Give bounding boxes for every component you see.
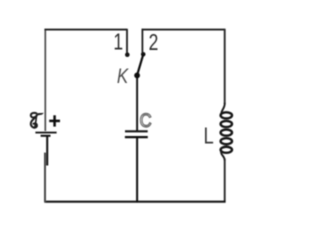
wire: right vertical lower, inductor bottom to bottom-right corner xyxy=(224,159,226,202)
wire: middle vertical from capacitor to bottom wire xyxy=(136,138,138,202)
battery negative lead (thick dark segment) xyxy=(46,136,48,165)
switch lever K from pivot to contact 2 xyxy=(137,54,143,76)
capacitor C bottom plate xyxy=(125,136,148,138)
wire: top horizontal left segment to contact-1 corner xyxy=(44,29,127,31)
node: switch contact 1 dot xyxy=(125,52,130,57)
inductor L coil turn 2 xyxy=(221,121,232,127)
svg-text:C: C xyxy=(140,110,152,132)
node: switch pivot dot K xyxy=(134,73,140,79)
svg-text:1: 1 xyxy=(113,30,123,55)
label: EMF script E xyxy=(31,113,44,128)
svg-text:L: L xyxy=(204,123,214,148)
inductor L coil turn 1 xyxy=(221,112,232,118)
wire: left vertical from top-left corner down to battery + plate xyxy=(44,30,46,131)
wire: stub down to switch contact 1 xyxy=(126,29,128,53)
wire: bottom horizontal xyxy=(44,201,225,203)
inductor L coil turn 4 xyxy=(221,138,232,144)
wire: stub down to switch contact 2 xyxy=(141,29,143,53)
wire: middle vertical from pivot down to capacitor top plate xyxy=(136,75,138,131)
battery long positive plate xyxy=(35,132,56,134)
node: switch contact 2 dot xyxy=(141,52,146,57)
inductor L coil turn 3 xyxy=(221,130,232,136)
svg-text:2: 2 xyxy=(149,31,159,56)
battery short negative plate xyxy=(41,135,51,137)
label: + polarity sign xyxy=(49,115,60,126)
inductor L bottom hook xyxy=(221,151,225,160)
wire: right vertical upper, corner to inductor top xyxy=(224,29,226,104)
capacitor C top plate xyxy=(125,130,148,132)
inductor L top hook xyxy=(221,103,225,114)
wire: top horizontal right segment to top-right corner xyxy=(142,29,225,31)
inductor L coil turn 5 xyxy=(221,147,232,153)
svg-text:K: K xyxy=(117,65,129,88)
wire: left vertical lower, battery lead to bottom-left corner xyxy=(44,153,46,203)
